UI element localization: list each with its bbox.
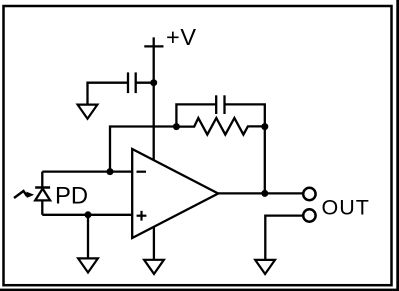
node inverting input [107, 168, 114, 175]
wire op-amp bottom power [153, 227, 155, 260]
wire output lower terminal [265, 216, 303, 260]
wire output [218, 192, 303, 194]
svg-text:PD: PD [55, 183, 88, 210]
ground photodiode [78, 258, 98, 272]
wire non-inverting input horizontal [42, 214, 132, 216]
photodiode PD [14, 188, 50, 201]
node bypass to +V [150, 79, 157, 86]
ground output [255, 260, 275, 274]
wire feedback top right [225, 104, 265, 193]
capacitor C2 feedback [215, 95, 217, 114]
ground op-amp [144, 260, 164, 274]
ground bypass [78, 105, 98, 119]
wire non-inverting ground drop [87, 215, 89, 259]
node feedback right [261, 123, 268, 130]
node output [261, 190, 268, 197]
resistor R1 feedback [176, 118, 264, 135]
terminal OUT lower [303, 209, 315, 221]
node non-inverting input [85, 211, 92, 218]
op-amp U1 [132, 149, 218, 238]
svg-text:+V: +V [166, 24, 197, 50]
wire bypass cap left [88, 83, 129, 105]
wire inverting input branch [110, 127, 176, 172]
wire photodiode vertical [41, 172, 43, 215]
wire +V rail vertical [153, 37, 155, 161]
wire feedback top left [176, 104, 216, 127]
node feedback left [173, 123, 180, 130]
svg-text:OUT: OUT [322, 196, 370, 220]
power +V symbol crossbar [144, 45, 163, 47]
wire bypass cap right [136, 82, 154, 84]
capacitor C1 bypass [127, 72, 129, 93]
wire inverting input horizontal [42, 170, 132, 172]
terminal OUT upper [303, 188, 315, 200]
